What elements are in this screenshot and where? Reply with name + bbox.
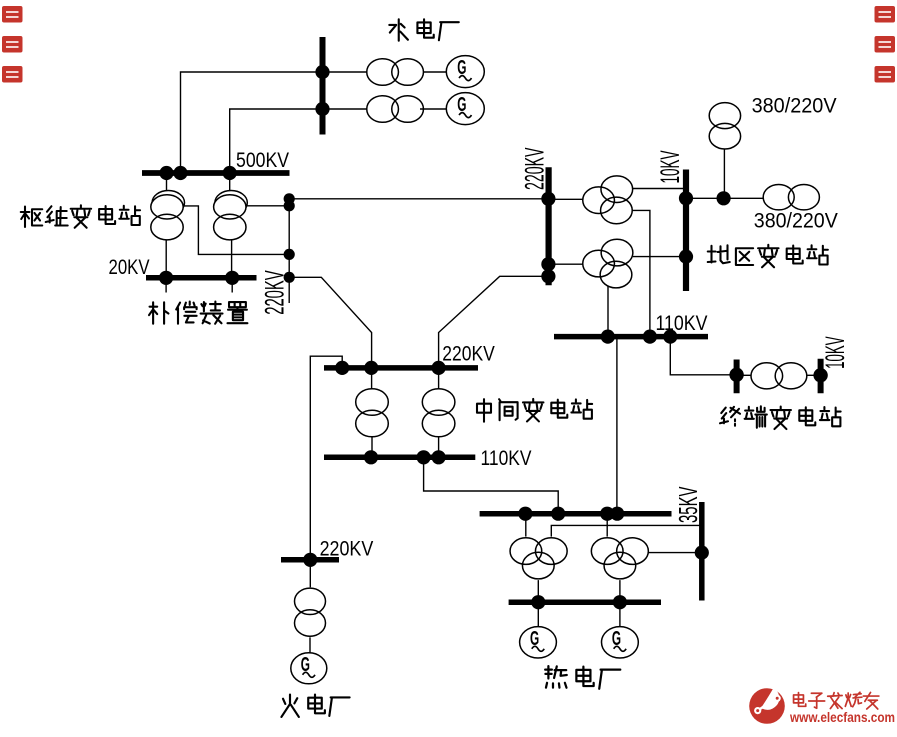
junction on hydro bus (line1) [315,65,329,79]
wire: 110KV to terminal substation [670,337,730,375]
transformer: regional T-up (three-winding) [583,187,615,214]
wire: middle T1 tap [371,368,373,389]
wire: hub to middle substation line (diagonal) [289,277,371,368]
wire: hydro line 2 to 500KV bus [230,109,323,173]
label: terminal substation 终端变电站 [720,407,740,426]
transformer: cogen T2 (three-winding) [591,538,623,565]
junction cogen gen bus a [531,595,545,609]
transformer: hub T1 (three-winding) [152,191,184,215]
svg-text:www.elecfans.com: www.elecfans.com [789,710,895,725]
junction 500KV bus x166 [159,166,173,180]
generator: hydro G2 [446,93,484,125]
bus: 35KV busbar (vertical) [699,502,705,601]
junction 35KV bus [695,546,709,560]
junction regional 220KV a [541,192,555,206]
wire: regional 110KV to cogen plant [616,337,618,514]
wire: unit1 transformer to generator [424,71,447,73]
wire: cogen T1 tap [525,514,527,537]
label: hub substation 枢纽变电站 [21,207,43,228]
junction 500KV bus x182 [173,166,187,180]
wire: cogen T2 tap [606,514,608,537]
wire: regional T-up to 110KV bus [632,210,650,336]
junction regional 110KV c [663,330,677,344]
svg-text:220KV: 220KV [520,147,550,190]
wire: middle 220KV to thermal plant [310,356,342,560]
wire: cogen T2 to generator bus [619,580,621,602]
wire: hydro line 1 to 500KV bus [181,72,323,173]
junction regional 10KV b [679,250,693,264]
generator: thermal G [291,653,327,684]
junction regional 220KV b [541,257,555,271]
junction 20KV bus left [159,271,173,285]
junction regional 220KV c [541,269,555,283]
wire: regional 220KV bus to T-up [548,198,583,200]
junction terminal HV [729,368,743,382]
junction 500KV bus x228 [223,166,237,180]
label: thermal plant 火电厂 [281,695,298,717]
junction thermal 220KV [303,553,317,567]
junction middle 220KV b [364,361,378,375]
wire: regional T-up to 10KV bus [633,188,686,190]
transformer: distribution Ta (380/220V) [709,103,740,129]
bus: regional 110KV busbar [554,334,708,340]
transformer: hydro unit2 step-up [367,96,399,123]
wire: cogen T1 to 35KV bus [551,525,702,536]
bus: thermal 220KV stub bar [281,557,339,563]
bus: cogen HV busbar [480,511,672,517]
generator: cogen G1 [520,627,557,658]
bus: middle 220KV busbar [324,365,478,371]
node: hub 220KV junction d [284,272,295,283]
junction regional 110KV a [601,330,615,344]
wire: middle T2 to 110KV bus [438,437,440,458]
transformer: hub T2 (three-winding) [215,191,247,215]
bus: middle 110KV busbar [324,455,475,461]
node: hub 220KV junction b [284,200,295,211]
junction cogen HV c [600,507,614,521]
wire: terminal transformer to 10KV bar [807,374,821,376]
svg-text:20KV: 20KV [109,256,150,279]
bus: 500KV busbar [142,170,290,176]
bus: 20KV busbar [146,275,257,281]
bus: regional 10KV busbar (vertical) [683,170,689,292]
wire: terminal HV bar to transformer [737,374,752,376]
svg-text:35KV: 35KV [673,486,703,523]
junction regional 10KV a [679,191,693,205]
svg-text:110KV: 110KV [656,312,708,335]
wire: 10KV bus to distribution node [686,197,763,199]
svg-text:380/220V: 380/220V [754,210,838,233]
bus: cogen generator busbar [509,599,661,605]
wire: middle T1 to 110KV bus [371,437,373,458]
transformer: cogen T1 (three-winding) [510,538,542,565]
bus: hydro 500KV busbar (vertical) [320,37,326,135]
node: hub 220KV junction c [284,249,295,260]
generator: hydro G1 [446,56,484,88]
junction cogen HV b [551,507,565,521]
label: cogen plant 热电厂 [545,666,567,688]
label: middle substation 中间变电站 [477,399,491,422]
junction cogen gen bus b [613,595,627,609]
junction middle 110KV b [417,450,431,464]
wire: hub T2 to 20KV bus [231,240,233,278]
label: hydro plant 水电厂 [389,19,408,40]
wire: unit2 transformer to generator [420,108,446,110]
transformer: middle T2 [422,389,455,416]
wire: regional to middle substation line (diagonal) [439,276,549,368]
wire: 20KV feeder stub left [165,278,167,293]
watermark edge marks [2,6,23,23]
wire: hub T2 220KV side [246,205,289,207]
wire: 500KV bus to hub transformer T1 [166,173,168,191]
wire: 20KV feeder stub right [231,278,233,293]
wire: middle 110KV to cogen bus [424,457,559,513]
wire: regional 220KV bus to T-low [548,263,583,265]
bus: terminal HV stub bar [734,360,740,394]
bus: terminal 10KV stub bar [818,359,824,393]
transformer: regional T-low (three-winding) [583,250,615,277]
wire: hub T1 220KV side jog [183,206,289,255]
transformer: distribution Tb (380/220V) [763,185,794,210]
wire: hub 220KV node column [288,194,290,304]
svg-text:220KV: 220KV [259,270,289,315]
wire: thermal transformer to generator [309,637,311,653]
junction 20KV bus right [225,271,239,285]
bus: regional 220KV busbar (vertical) [545,167,551,285]
wire: regional T-low to 10KV bus [633,256,686,258]
label: regional substation 地区变电站 [708,245,730,263]
junction terminal 10KV [813,368,827,382]
wire: thermal bus to transformer [309,560,311,588]
svg-text:10KV: 10KV [820,336,850,369]
junction middle 110KV c [432,450,446,464]
svg-text:10KV: 10KV [655,150,685,183]
svg-text:380/220V: 380/220V [752,94,837,117]
svg-text:220KV: 220KV [442,343,495,366]
transformer: middle T1 [356,389,389,416]
junction middle 110KV a [364,450,378,464]
wire: 500KV bus to hub transformer T2 [229,173,231,191]
node: hub 220KV junction a [284,193,295,204]
junction regional 110KV b [643,330,657,344]
wire: cogen G2 lead [619,602,621,627]
svg-text:500KV: 500KV [236,149,289,172]
wire: regional T-low to 110KV bus [607,286,609,337]
svg-text:220KV: 220KV [320,537,374,560]
generator: cogen G2 [602,627,639,658]
transformer: hydro unit1 step-up [367,59,399,86]
junction on hydro bus (line2) [315,102,329,116]
transformer: terminal (two-winding) [751,363,783,389]
junction cogen HV a [518,507,532,521]
wire: cogen G1 lead [537,602,539,627]
svg-text:110KV: 110KV [481,447,532,470]
junction middle 220KV c [432,361,446,375]
wire: node to distribution transformer a [723,150,725,199]
label: compensation device 补偿装置 [149,302,168,323]
watermark text cn [794,693,806,707]
wire: cogen T1 to generator bus [537,580,539,602]
node: distribution junction [717,191,731,205]
transformer: thermal step-up [295,588,326,614]
wire: hub to regional 220KV line [289,198,548,200]
wire: middle T2 tap [438,368,440,389]
wire: hydro unit2 to bus [323,108,367,110]
wire: cogen T2 to 35KV bus [648,552,701,554]
watermark logo (elecfans) [749,688,785,724]
junction middle 220KV a [335,361,349,375]
wire: hub T1 to 20KV bus [165,240,167,278]
wire: hydro unit1 to bus [323,71,367,73]
junction cogen HV d [610,507,624,521]
